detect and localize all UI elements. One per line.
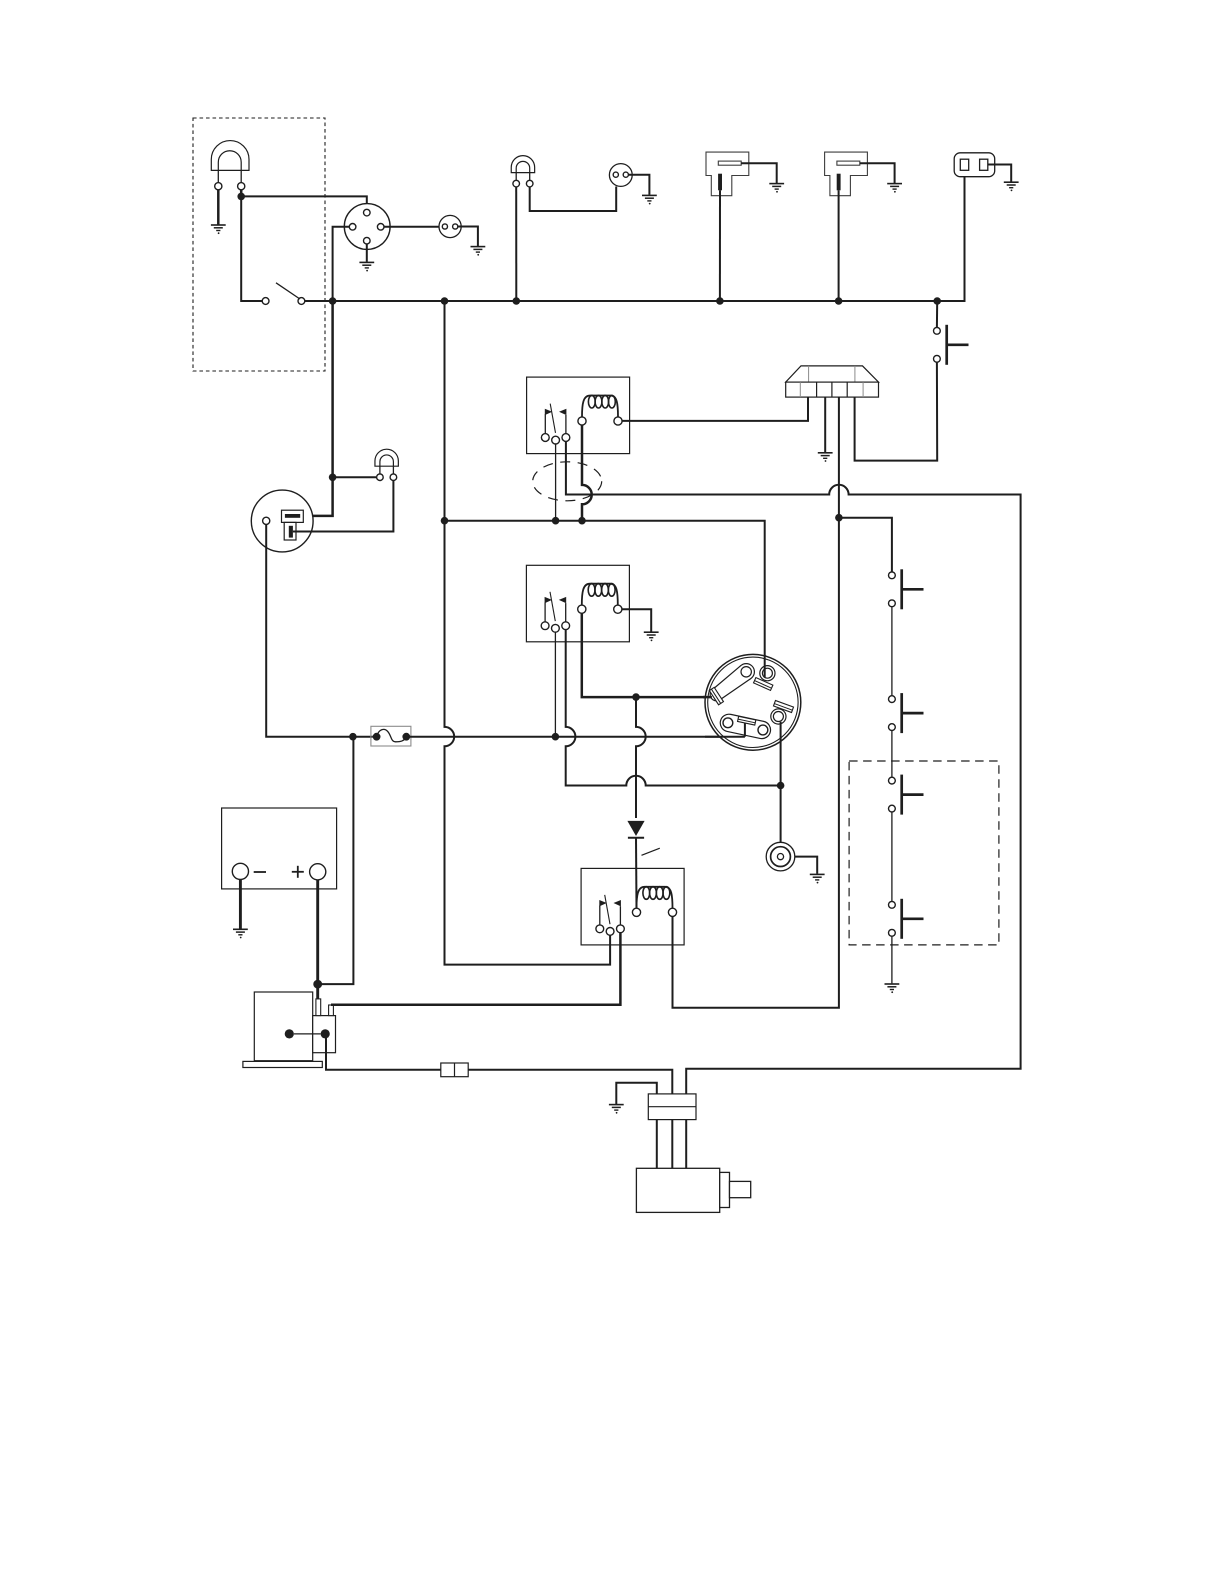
hour meter M2 (bullseye) [766, 842, 795, 871]
ground G10 [609, 1105, 624, 1114]
wire: C1 right pin to C2 [384, 226, 440, 228]
wire: C5 to ground [988, 165, 1011, 182]
wire: R2 right contact to hourmeter line (with hops) [566, 630, 781, 786]
wire: solenoid contact to bottom bus [326, 1038, 441, 1070]
wire: hour meter to ground [795, 857, 817, 874]
ground G2 [359, 262, 374, 271]
wire: junction to lamp L3 [333, 476, 376, 478]
push button switch PB1 [934, 325, 969, 365]
regulator connector (trapezoid plug) [786, 366, 879, 397]
wire: push button to regulator connector pin 4 [855, 362, 938, 460]
ground G11 [644, 632, 659, 641]
switch terminal D (bottom peanut) [719, 713, 773, 741]
wire: S2b to S2c [891, 730, 893, 777]
wire: headlamp right pin stub [240, 190, 243, 197]
ground G8 [818, 453, 833, 462]
ignition coil connector C7 [648, 1094, 696, 1120]
junction dot hourmeter line [777, 782, 785, 790]
wire: module lower pin to lamp L3 right pin [293, 481, 394, 532]
wire: headlamp feed to connector C1 top [241, 196, 367, 209]
wire: C1 bottom pin to ground [366, 244, 368, 262]
interlock switch S2b [889, 693, 924, 733]
interlock switch S2c [889, 775, 924, 815]
switch terminal A (keyhole, left) [709, 664, 754, 705]
wire: S2a to S2b [891, 606, 893, 695]
switch terminal C (right) [771, 700, 794, 724]
ground G9 [233, 929, 248, 938]
wire: R2 coil-right to ground [622, 609, 651, 631]
wire: L2 right pin to bulb C3 [530, 187, 617, 212]
ground G6 [887, 184, 902, 193]
ground G3 [471, 247, 486, 256]
wire: headlamp left pin to ground [217, 190, 220, 225]
junction dot diode branch [632, 693, 640, 701]
dashed enclosure (interlock switches) [849, 761, 999, 945]
wire: battery positive to solenoid [316, 880, 319, 1000]
headlamp L1 [211, 141, 249, 190]
ground G13 [885, 984, 900, 993]
branch x=444.5 bus to relay R3 mid contact [445, 301, 611, 965]
bottom bus wire to coil connector [468, 1070, 672, 1094]
wire: S2d to ground [891, 936, 893, 983]
ground G4 [642, 195, 657, 204]
wire: diode cathode to R3 coil-left [635, 838, 638, 909]
wire: main bus to push button [936, 301, 938, 327]
wire: module left pin down to fuse bus [266, 525, 373, 737]
fuse F1 [371, 726, 411, 746]
wire: T1 plug to main bus [719, 190, 721, 301]
wire: R2 mid contact to fuse bus [554, 632, 556, 737]
fuse bus wire to ignition switch [406, 736, 745, 738]
wire: junction to interlock chain [839, 518, 892, 572]
wire: battery positive up to fuse bus [318, 737, 354, 984]
ignition coil / starter motor M3 [636, 1168, 750, 1212]
accessory feed line y=520.7 [445, 521, 765, 678]
indicator lamp L3 [375, 449, 398, 480]
wire: battery negative to ground [239, 880, 242, 929]
T-connector T1 (oil pressure switch) [706, 152, 749, 196]
ground G12 [810, 874, 825, 883]
branch x=332.6 bus to module M1 [301, 301, 333, 516]
wire: C1 left pin to main bus [333, 227, 350, 301]
wire: ground stub to coil connector [616, 1083, 657, 1104]
light switch SW1 [262, 283, 305, 305]
wire: R1 mid contact down [555, 444, 557, 521]
wire: C2 to ground [458, 227, 478, 247]
connector C5 (2-pin plug) [954, 153, 995, 177]
wire: R2 coil-left to ignition switch [582, 613, 712, 697]
diode D1 [627, 821, 644, 838]
ground G7 [1004, 182, 1019, 191]
junction dot headlamp feed [237, 193, 245, 201]
wire: switch terminal C down to hour meter [780, 722, 782, 843]
polarity slash mark [642, 848, 660, 855]
junction dot relay R2 contact [552, 733, 560, 741]
junction dot battery positive [313, 980, 322, 989]
inline connector C6 [441, 1063, 468, 1077]
interlock switch S2d [889, 899, 924, 939]
lamp L2 [511, 156, 534, 187]
relay R3 (starter relay) [581, 868, 684, 945]
ignition switch (key switch) [705, 654, 801, 750]
wire: headlamp feed down to light switch [241, 196, 262, 301]
wires: coil connector to ignition coil [657, 1120, 686, 1169]
wire: L2 left pin to main bus [515, 187, 517, 301]
wire: T1 to ground [741, 163, 777, 183]
switch terminal B (top) [754, 666, 775, 691]
junction dots on main bus [329, 297, 337, 305]
dashed enclosure (headlight circuit option) [193, 118, 325, 371]
battery B1 [222, 808, 337, 889]
wire: T2 to ground [860, 163, 895, 183]
wire: fuse bus end into switch terminal D [705, 736, 745, 738]
wire: regulator pin 2 to ground [824, 397, 826, 452]
ground G5 [769, 184, 784, 193]
relay R1 [527, 377, 630, 454]
wire: T2 plug to main bus [838, 190, 840, 301]
wire: regulator pin 1 to relay R1 coil [622, 397, 808, 421]
ground G1 [211, 225, 226, 234]
relay R2 [526, 565, 629, 642]
wire: relay R2 coil line end into switch terminal A [703, 696, 712, 699]
connector C2 (2-pin round) [439, 215, 461, 237]
wire: diode branch from R2 coil line down to relay R3 coil [636, 697, 646, 818]
interlock switch S2a [889, 569, 924, 609]
wire: R1 right contact + feed line to right rail and bottom [566, 442, 1021, 1094]
wire: accessory line end into switch terminal B [764, 655, 766, 678]
module M1 (ignition unit) [251, 490, 313, 552]
main bus wire y=301 [305, 170, 965, 301]
bulb socket C3 [609, 164, 632, 187]
dashed ellipse (connector grouping) [533, 462, 602, 501]
wire: solenoid terminal 2 to relay R3 right contact [331, 933, 620, 1005]
junction dot battery feed [349, 733, 357, 741]
junction dot on regulator drop [835, 514, 843, 522]
connector C1 (4-pin round) [344, 204, 390, 250]
T-connector T2 (sensor) [825, 152, 868, 196]
starter solenoid S1 [243, 992, 336, 1068]
wire: S2c to S2d [891, 812, 893, 901]
wire: regulator pin 3 down to relay R3 coil (long) [673, 397, 839, 1008]
wire: R1 coil-left down with hop [582, 425, 592, 521]
junction dot for indicator lamp [329, 474, 337, 482]
wire: C3 to ground [628, 175, 649, 195]
junction dots on accessory line [441, 517, 449, 525]
